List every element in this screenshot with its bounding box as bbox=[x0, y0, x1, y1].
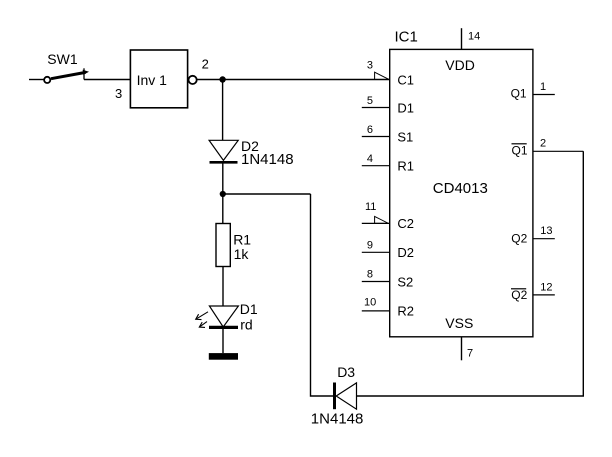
pin 12 stub (Q2-bar output) bbox=[533, 294, 555, 296]
overline of Q2-bar bbox=[511, 288, 526, 290]
svg-text:3: 3 bbox=[367, 60, 373, 72]
pin 5 stub (D1 input) bbox=[362, 107, 390, 109]
svg-text:3: 3 bbox=[115, 86, 122, 101]
pin 7 wire (VSS) bbox=[461, 337, 463, 361]
svg-text:SW1: SW1 bbox=[47, 51, 78, 67]
svg-text:5: 5 bbox=[367, 95, 373, 107]
svg-text:rd: rd bbox=[240, 316, 252, 332]
pin 11 wedge: clock input C2 bbox=[375, 216, 389, 223]
svg-text:VDD: VDD bbox=[445, 57, 475, 73]
diode D3 bbox=[335, 383, 357, 410]
wire: Inv 1 output to IC1 pin C1 bbox=[197, 79, 390, 81]
svg-text:14: 14 bbox=[468, 30, 480, 42]
wire: R1 to D1 anode bbox=[222, 267, 224, 307]
ground bbox=[209, 353, 238, 360]
svg-text:C2: C2 bbox=[397, 216, 414, 231]
inverter output bubble bbox=[189, 76, 197, 84]
svg-text:D1: D1 bbox=[240, 301, 258, 317]
pin 6 stub (S1 input) bbox=[362, 136, 390, 138]
svg-text:Q1: Q1 bbox=[511, 87, 527, 101]
diode D2 bbox=[209, 140, 238, 162]
overline of Q1-bar bbox=[512, 143, 527, 145]
svg-text:13: 13 bbox=[540, 225, 552, 237]
IC U1 (CD4013) box bbox=[390, 49, 533, 336]
svg-text:1N4148: 1N4148 bbox=[241, 151, 294, 168]
svg-text:D2: D2 bbox=[397, 245, 414, 260]
wire: D2 cathode to node B bbox=[222, 162, 224, 194]
pin 1 stub (Q1 output) bbox=[533, 94, 555, 96]
svg-text:9: 9 bbox=[367, 239, 373, 251]
svg-text:R2: R2 bbox=[397, 304, 414, 319]
pin 2 stub (Q1-bar output) bbox=[533, 150, 583, 152]
svg-text:10: 10 bbox=[364, 297, 376, 309]
switch SW1 bbox=[44, 68, 89, 83]
pin 13 stub (Q2 output) bbox=[533, 238, 555, 240]
wire: D1 cathode to ground bbox=[222, 327, 224, 353]
svg-text:IC1: IC1 bbox=[395, 28, 418, 45]
svg-text:2: 2 bbox=[540, 138, 546, 150]
pin 14 wire (VDD) bbox=[461, 28, 463, 49]
node B junction dot bbox=[220, 191, 226, 197]
svg-text:CD4013: CD4013 bbox=[433, 180, 488, 197]
svg-text:VSS: VSS bbox=[445, 315, 473, 331]
wire: SW1 to Inv 1 input bbox=[84, 79, 130, 81]
wire: right rail from Q1-bar down to D3 cathode wire bbox=[357, 151, 584, 396]
wire: left rail down to D3 anode wire bbox=[311, 194, 334, 396]
svg-text:6: 6 bbox=[367, 124, 373, 136]
svg-text:12: 12 bbox=[540, 282, 552, 294]
wire: left lead to SW1 bbox=[29, 79, 44, 81]
svg-text:2: 2 bbox=[202, 57, 209, 72]
svg-text:C1: C1 bbox=[397, 72, 414, 87]
node A junction dot bbox=[219, 76, 225, 82]
pin 11 stub bbox=[362, 222, 390, 224]
pin 9 stub (D2 input) bbox=[362, 251, 390, 253]
svg-text:11: 11 bbox=[365, 201, 376, 213]
wire: node A down to D2 anode bbox=[222, 80, 224, 141]
LED D1 bbox=[196, 306, 239, 327]
svg-text:Q2: Q2 bbox=[511, 288, 527, 302]
svg-text:1: 1 bbox=[540, 81, 546, 93]
svg-text:1N4148: 1N4148 bbox=[311, 411, 364, 428]
svg-text:1k: 1k bbox=[234, 246, 250, 262]
svg-text:4: 4 bbox=[367, 153, 373, 165]
svg-text:8: 8 bbox=[367, 269, 373, 281]
svg-text:Inv 1: Inv 1 bbox=[137, 72, 168, 88]
svg-text:S2: S2 bbox=[397, 274, 413, 289]
inverter Inv 1 box bbox=[130, 50, 187, 108]
text layer bbox=[47, 28, 552, 427]
wire: node B down to R1 bbox=[222, 194, 224, 224]
svg-text:D3: D3 bbox=[337, 364, 355, 380]
svg-text:7: 7 bbox=[467, 348, 473, 360]
pin 8 stub (S2 input) bbox=[362, 281, 390, 283]
svg-text:D1: D1 bbox=[397, 100, 414, 115]
wire: node B right to left rail corner bbox=[223, 193, 311, 195]
svg-text:Q1: Q1 bbox=[512, 143, 528, 157]
pin 3 wedge: clock input C1 bbox=[375, 72, 389, 79]
resistor R1 bbox=[216, 224, 230, 267]
pin 4 stub (R1 input) bbox=[362, 165, 390, 167]
svg-text:Q2: Q2 bbox=[511, 232, 527, 246]
svg-text:S1: S1 bbox=[397, 129, 413, 144]
pin 10 stub (R2 input) bbox=[362, 310, 390, 312]
svg-text:R1: R1 bbox=[397, 159, 414, 174]
